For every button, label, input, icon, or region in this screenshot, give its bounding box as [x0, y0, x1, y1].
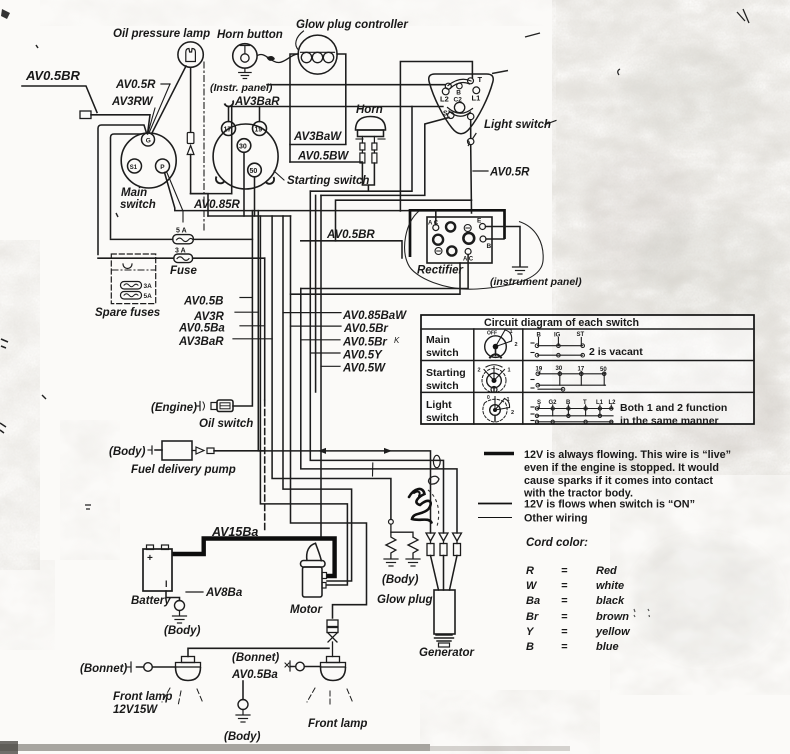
svg-text:(instrument panel): (instrument panel) — [490, 276, 582, 288]
wire rounded drop B (to fuse 3A) — [98, 125, 147, 255]
wire rectifier bottom AC return — [301, 255, 468, 289]
wire third bus with drop — [336, 200, 472, 241]
squiggle wire horn button to controller — [257, 54, 298, 63]
oil pressure lamp — [178, 42, 203, 67]
starting switch U3 — [213, 101, 278, 190]
ground right of rectifier — [513, 267, 528, 274]
svg-text:AV3BaW: AV3BaW — [293, 131, 342, 143]
svg-text:AV3BaR: AV3BaR — [178, 336, 224, 348]
svg-text:Starting: Starting — [426, 367, 466, 379]
wire fuse row 2 — [98, 257, 174, 259]
svg-text:AV0.5BR: AV0.5BR — [326, 229, 375, 241]
svg-text:Horn button: Horn button — [217, 29, 283, 41]
svg-text:0: 0 — [487, 395, 490, 401]
svg-text:AV8Ba: AV8Ba — [205, 587, 243, 599]
connector glyph below switch — [468, 138, 474, 144]
svg-text:Other wiring: Other wiring — [524, 513, 588, 525]
svg-text:Light: Light — [426, 399, 452, 411]
svg-text:Red: Red — [596, 565, 617, 577]
svg-text:Both 1 and 2 function: Both 1 and 2 function — [620, 402, 727, 414]
svg-text:Starting switch: Starting switch — [287, 175, 369, 187]
svg-text:white: white — [596, 580, 624, 592]
wire controller box left (AV3BaW loop) — [290, 54, 298, 162]
motor — [301, 543, 327, 597]
svg-text:B: B — [526, 641, 534, 653]
wire lamp drop with connector pair — [187, 67, 208, 216]
svg-text:P: P — [160, 164, 165, 171]
battery — [143, 545, 172, 591]
svg-text:IG: IG — [554, 333, 561, 339]
light switch contact ladder — [531, 400, 727, 427]
svg-text:(Body): (Body) — [382, 574, 419, 586]
svg-text:T: T — [478, 75, 483, 84]
stray oval mark — [433, 455, 440, 467]
wire controller to L2 arc — [267, 84, 445, 86]
svg-text:switch: switch — [426, 412, 459, 424]
horn — [356, 117, 386, 140]
arrowheads on V2 run — [318, 448, 326, 454]
front lamp right — [321, 657, 346, 681]
svg-text:Front lamp: Front lamp — [113, 691, 172, 703]
svg-text:S: S — [443, 111, 448, 118]
wire connector to main switch — [91, 115, 150, 134]
glow plug junction — [389, 519, 394, 524]
svg-text:Main: Main — [121, 187, 147, 199]
bundle vertical V5 to motor — [283, 216, 352, 581]
svg-text:AV0.5Ba: AV0.5Ba — [178, 323, 225, 335]
wire AV0.5BR — [301, 241, 402, 258]
bottom scan streak — [0, 744, 430, 751]
wire E to ground — [486, 227, 521, 267]
svg-text:AV0.85R: AV0.85R — [193, 199, 241, 211]
wire fuse row 1 — [111, 238, 173, 240]
svg-text:Motor: Motor — [290, 604, 322, 616]
svg-text:1: 1 — [510, 329, 513, 335]
right lamp feed — [296, 662, 305, 671]
svg-text:black: black — [596, 595, 625, 607]
svg-text:AV0.5R: AV0.5R — [489, 167, 530, 179]
bundle vertical V5b to motor — [260, 216, 347, 585]
svg-text:L2: L2 — [609, 400, 617, 406]
svg-text:G: G — [146, 138, 151, 145]
svg-text:B: B — [487, 243, 492, 250]
svg-text:=: = — [561, 641, 568, 653]
svg-text:(Instr. panel): (Instr. panel) — [210, 82, 273, 94]
svg-text:=: = — [561, 626, 568, 638]
bundle vertical V8 to glow diode 2 — [310, 191, 443, 533]
legend medium line — [478, 503, 512, 505]
svg-text:switch: switch — [426, 347, 459, 359]
svg-text:AV0.5R: AV0.5R — [115, 79, 156, 91]
legend thick line — [484, 452, 514, 456]
svg-text:Rectifier: Rectifier — [417, 265, 464, 277]
svg-text:(Bonnet): (Bonnet) — [80, 663, 127, 675]
bundle vertical V8b — [315, 195, 317, 392]
svg-text:2: 2 — [478, 368, 481, 374]
wire rounded drop A (to fuse 5A) — [111, 134, 142, 238]
bundle vertical V9 — [320, 195, 322, 537]
svg-text:S1: S1 — [130, 165, 138, 171]
svg-text:AV0.5BW: AV0.5BW — [297, 151, 349, 163]
wire battery to body ground — [166, 591, 180, 601]
svg-text:Fuse: Fuse — [170, 265, 197, 277]
svg-text:=: = — [561, 595, 568, 607]
wire B to heavy loop — [486, 238, 504, 240]
glow plug controller — [298, 35, 337, 74]
light switch U4 body — [429, 74, 494, 134]
switch table — [421, 315, 754, 424]
fuel delivery pump — [109, 441, 265, 476]
svg-text:17: 17 — [224, 127, 232, 134]
svg-text:AV3RW: AV3RW — [111, 96, 154, 108]
svg-text:L2: L2 — [440, 95, 449, 104]
svg-text:Generator: Generator — [419, 647, 474, 659]
svg-text:blue: blue — [596, 641, 619, 653]
svg-text:AV0.5Y: AV0.5Y — [342, 350, 383, 362]
svg-text:E: E — [477, 218, 482, 225]
svg-text:switch: switch — [426, 380, 459, 392]
wire left lamp riser and feed — [188, 648, 329, 656]
wire rectifier AC up — [435, 210, 437, 224]
svg-text:Cord color:: Cord color: — [526, 537, 588, 549]
front lamp left — [176, 657, 201, 681]
svg-text:30: 30 — [556, 366, 563, 372]
stray tick on V7 run — [372, 463, 374, 476]
svg-text:T: T — [583, 400, 587, 406]
svg-text:(Engine): (Engine) — [151, 402, 197, 414]
svg-text:ST: ST — [577, 332, 585, 338]
generator — [434, 590, 455, 647]
stray scan marks — [0, 9, 749, 617]
svg-text:2 is vacant: 2 is vacant — [589, 346, 643, 358]
wire terminal 50 down — [254, 177, 256, 216]
svg-text:Oil switch: Oil switch — [199, 418, 253, 430]
svg-text:=: = — [561, 565, 568, 577]
wire B drop to heavy loop — [470, 120, 473, 213]
light switch terminals L2 B L1 — [442, 88, 449, 95]
svg-text:AV0.5BR: AV0.5BR — [25, 68, 81, 83]
svg-text:Battery: Battery — [131, 595, 171, 607]
bundle vertical V6 to front lamp feed — [291, 216, 367, 618]
svg-text:Light switch: Light switch — [484, 119, 551, 131]
svg-text:1: 1 — [508, 368, 511, 374]
svg-text:Fuel delivery pump: Fuel delivery pump — [131, 464, 236, 476]
svg-text:even if the engine is stopped.: even if the engine is stopped. It would — [524, 462, 719, 474]
svg-text:AV0.85BaW: AV0.85BaW — [342, 310, 407, 322]
svg-text:Ba: Ba — [526, 595, 540, 607]
horn button — [233, 44, 257, 68]
svg-text:+: + — [147, 553, 153, 564]
svg-text:5A: 5A — [144, 293, 153, 300]
svg-text:I: I — [165, 579, 168, 589]
svg-text:=: = — [561, 580, 568, 592]
wire S contact down-left — [321, 118, 449, 196]
svg-text:AV0.5Br: AV0.5Br — [343, 323, 388, 335]
legend thin line — [478, 517, 512, 519]
wire AV0.5Ba ground chain — [242, 681, 244, 700]
wire instr panel run to light switch — [232, 107, 443, 194]
svg-text:AV0.5W: AV0.5W — [342, 363, 386, 375]
svg-text:yellow: yellow — [595, 626, 631, 638]
svg-text:2: 2 — [511, 410, 514, 416]
ground below horn button — [239, 68, 251, 78]
svg-text:12V15W: 12V15W — [113, 704, 158, 716]
fuse F2 3A — [174, 248, 193, 263]
bundle vertical V4 to glow plug junction — [272, 216, 391, 519]
light switch bottom arc contacts — [448, 108, 474, 120]
svg-text:(Bonnet): (Bonnet) — [232, 652, 279, 664]
svg-text:switch: switch — [120, 199, 156, 211]
svg-text:AV0.5B: AV0.5B — [183, 296, 223, 308]
svg-text:B: B — [456, 90, 461, 97]
svg-text:K: K — [394, 336, 400, 345]
bus horizontal y216 — [208, 215, 291, 217]
svg-text:cause sparks if it comes into: cause sparks if it comes into contact — [524, 475, 713, 487]
svg-text:W: W — [526, 580, 538, 592]
svg-text:OFF: OFF — [487, 331, 497, 337]
svg-text:AV3R: AV3R — [193, 311, 225, 323]
light switch rotary icon — [483, 395, 514, 422]
wire terminal 19 up — [259, 107, 261, 122]
svg-text:Front lamp: Front lamp — [308, 718, 367, 730]
bundle vertical V1 — [233, 211, 252, 406]
svg-text:5 A: 5 A — [176, 228, 187, 235]
svg-text:Circuit diagram of each switch: Circuit diagram of each switch — [484, 317, 639, 329]
svg-text:2: 2 — [515, 342, 518, 348]
bundle vertical V3 — [264, 258, 266, 400]
svg-text:(Body): (Body) — [224, 731, 261, 743]
ink scribble blob — [409, 489, 432, 523]
wire AV0.5BR underline + lead — [22, 86, 97, 113]
glow plug diode elements — [426, 533, 462, 556]
wire AV0.5R lead to G — [149, 84, 170, 133]
wires diodes to generator — [431, 556, 439, 591]
svg-text:in the same manner: in the same manner — [620, 415, 719, 427]
light switch top arc contacts — [445, 78, 473, 89]
svg-text:Oil pressure lamp: Oil pressure lamp — [113, 28, 210, 40]
wire AV0.5BW to horn — [290, 161, 362, 163]
wire horn bus — [310, 107, 412, 192]
svg-text:Glow plug: Glow plug — [377, 594, 433, 606]
svg-text:A C: A C — [428, 221, 439, 227]
svg-text:R: R — [526, 565, 534, 577]
grounds below glow plug resistors — [384, 559, 420, 566]
wire horn pins down to bus — [362, 163, 374, 191]
main switch rotary icon — [485, 329, 518, 358]
rectifier U5 — [427, 217, 492, 263]
svg-text:L1: L1 — [472, 94, 481, 103]
svg-text:(Body): (Body) — [109, 446, 146, 458]
svg-text:12V is flows when switch is “O: 12V is flows when switch is “ON” — [524, 499, 695, 511]
wire terminal 17 up — [228, 107, 230, 122]
scan noise band right — [552, 0, 790, 475]
svg-text:Spare fuses: Spare fuses — [95, 307, 160, 319]
svg-text:brown: brown — [596, 611, 629, 623]
oil switch — [151, 400, 253, 430]
svg-text:AV0.5Ba: AV0.5Ba — [231, 669, 278, 681]
wire P to AV0.85R run — [165, 173, 411, 211]
horn connector pins — [360, 137, 377, 164]
spare fuses box — [111, 254, 155, 304]
bonnet connector above right lamp — [327, 620, 338, 657]
wire top loop to T — [400, 62, 472, 212]
main switch contact ladder — [531, 332, 643, 358]
svg-text:50: 50 — [250, 168, 258, 175]
connector square — [80, 111, 91, 119]
svg-text:=: = — [561, 611, 568, 623]
glow plug resistors — [386, 524, 418, 558]
thick battery wire AV15Ba — [172, 539, 335, 577]
svg-text:30: 30 — [239, 144, 247, 151]
svg-text:3A: 3A — [144, 283, 153, 290]
svg-text:Br: Br — [526, 611, 539, 623]
starting switch rotary icon — [478, 365, 511, 393]
main switch U2 — [121, 133, 176, 188]
hand-drawn lasso around rectifier — [405, 211, 544, 289]
svg-text:Main: Main — [426, 334, 450, 346]
bundle vertical V2 to glow diode 1 — [258, 211, 430, 533]
heavy wire rectangle at rectifier — [410, 210, 505, 257]
svg-text:19: 19 — [255, 127, 263, 134]
bundle vertical V7 to glow diode 3 — [301, 289, 457, 534]
svg-text:AV0.5Br: AV0.5Br — [342, 337, 387, 349]
svg-text:Glow plug controller: Glow plug controller — [296, 19, 408, 31]
svg-text:(Body): (Body) — [164, 625, 201, 637]
cord color table — [526, 565, 631, 653]
starting switch contact ladder — [531, 366, 607, 391]
wire terminal 30 down — [243, 152, 245, 216]
svg-text:12V is always flowing. This wi: 12V is always flowing. This wire is “liv… — [524, 449, 731, 461]
dashed panel boundary vertical — [203, 62, 205, 231]
svg-text:1: 1 — [507, 397, 510, 403]
svg-text:19: 19 — [536, 367, 543, 373]
fuse F1 5A — [173, 228, 194, 244]
wire lamp to main switch G — [152, 66, 186, 133]
